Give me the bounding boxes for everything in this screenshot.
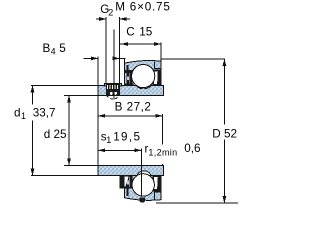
d1 arrows	[31, 85, 35, 92]
svg-text:d 25: d 25	[44, 128, 67, 141]
cap groove lower right	[155, 192, 161, 199]
outer ring upper block	[124, 61, 161, 86]
screw axis line	[113, 30, 115, 100]
lube notch lower	[140, 198, 146, 203]
B dim line	[98, 115, 162, 117]
C left ext	[123, 58, 125, 63]
d bottom ext	[64, 164, 98, 166]
G2 arrows	[99, 17, 106, 21]
grub screw	[106, 84, 120, 96]
d1 bottom ext	[31, 175, 98, 177]
seal upper left	[124, 70, 134, 85]
G2 dim line right part	[120, 18, 130, 20]
svg-text:M 6×0.75: M 6×0.75	[115, 1, 170, 14]
B arrows	[98, 114, 105, 118]
svg-text:2: 2	[108, 8, 113, 18]
seal lower left	[120, 176, 133, 189]
svg-text:4: 4	[51, 47, 56, 57]
dashed thread arc	[106, 95, 120, 99]
seal slot upper left	[126, 65, 128, 73]
s1 right ext through lower ball	[141, 149, 143, 197]
svg-text:5: 5	[59, 42, 66, 55]
inner ring lower band	[98, 166, 163, 176]
svg-text:33,7: 33,7	[33, 107, 56, 120]
d1 top ext	[31, 84, 98, 86]
svg-text:d: d	[14, 107, 21, 120]
C dim line	[120, 43, 162, 45]
C right ext	[160, 42, 162, 64]
G2 dim line left part	[96, 18, 106, 20]
svg-text:1: 1	[21, 111, 26, 121]
long left extension line	[97, 57, 99, 166]
D top ext	[161, 58, 225, 60]
ball upper	[132, 65, 155, 88]
svg-text:19,5: 19,5	[113, 130, 141, 143]
D arrows	[223, 59, 227, 66]
race groove notch lower	[137, 171, 151, 182]
svg-text:B 27,2: B 27,2	[115, 100, 152, 113]
D dim line (broken at text)	[223, 59, 225, 125]
outer ring lower block	[124, 176, 161, 201]
G2 left ext	[105, 17, 107, 83]
B4 arrows	[91, 57, 98, 61]
race groove notch upper	[136, 80, 151, 88]
svg-text:0,6: 0,6	[184, 142, 200, 155]
B4 dim line left part	[84, 57, 99, 59]
svg-text:1,2min: 1,2min	[148, 147, 177, 157]
inner ring upper band	[98, 85, 163, 95]
d top ext	[64, 94, 98, 96]
seal slot lower left	[126, 188, 128, 196]
svg-text:D 52: D 52	[212, 128, 237, 141]
ball lower	[132, 174, 154, 196]
G2 right ext	[119, 17, 121, 83]
B4 dim line right part	[113, 57, 126, 59]
svg-text:1: 1	[106, 135, 111, 145]
C arrows	[121, 42, 128, 46]
cap groove upper right	[155, 61, 161, 68]
d arrows	[67, 95, 71, 102]
seal upper right	[152, 69, 161, 85]
seal lower right	[152, 176, 161, 192]
s1 dim line	[98, 149, 141, 151]
svg-text:C 15: C 15	[126, 25, 153, 38]
D bottom ext	[156, 202, 238, 204]
svg-text:B: B	[43, 42, 51, 55]
d1 dim line (broken at text)	[32, 85, 34, 104]
s1 arrows	[98, 148, 105, 152]
locking collar boss	[105, 83, 122, 86]
d dim line	[68, 95, 70, 165]
B right ext (broken at r text)	[161, 114, 163, 144]
